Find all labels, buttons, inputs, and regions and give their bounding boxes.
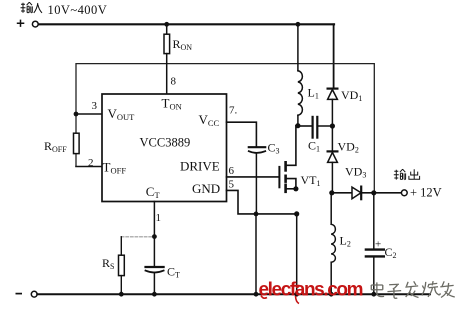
svg-text:2: 2 [88, 157, 94, 169]
wire source drop to rail [296, 214, 298, 294]
wire pin1 CT [153, 202, 155, 267]
svg-text:VT1: VT1 [301, 173, 321, 188]
svg-text:GND: GND [192, 181, 220, 196]
svg-text:5: 5 [229, 179, 235, 191]
resistor RON [166, 24, 168, 34]
watermark 电子发烧友 [371, 281, 454, 298]
capacitor C2 [373, 193, 375, 249]
wire pin7 VCC to C3 [227, 122, 257, 146]
svg-text:C3: C3 [268, 141, 280, 156]
svg-text:elecfans.com: elecfans.com [259, 279, 363, 300]
svg-text:10V~400V: 10V~400V [48, 3, 108, 17]
node junction top RON [164, 22, 169, 27]
node GND/source junction [294, 211, 299, 216]
svg-text:L1: L1 [308, 86, 319, 101]
svg-text:6: 6 [229, 165, 235, 177]
label input chinese 输入 [21, 2, 43, 13]
svg-text:C2: C2 [385, 245, 397, 260]
svg-text:VCC3889: VCC3889 [140, 136, 191, 150]
node rail C2 [371, 292, 376, 297]
inductor L2 [330, 193, 332, 224]
node C1/VD junction [330, 123, 335, 128]
svg-text:7.: 7. [229, 105, 238, 117]
output terminal [401, 190, 407, 196]
inductor L1 [297, 24, 299, 71]
node output junction [371, 190, 376, 195]
capacitor C3 [249, 146, 265, 148]
svg-text:VD1: VD1 [341, 88, 362, 103]
transistor VT1 MOSFET [278, 167, 280, 187]
node rail GND [254, 292, 259, 297]
node rail CT [152, 292, 157, 297]
svg-text:+ 12V: + 12V [410, 186, 442, 200]
svg-text:8: 8 [171, 76, 177, 88]
wire bottom ground rail [37, 293, 430, 295]
svg-text:RON: RON [173, 37, 193, 52]
wire pin3 [76, 113, 102, 115]
svg-text:VD3: VD3 [345, 165, 366, 180]
node junction top L1 [296, 22, 301, 27]
wire feedback top line [76, 64, 374, 193]
node source dot [293, 186, 298, 191]
node VD2/VD3/L2 junction [329, 190, 334, 195]
label minus [16, 293, 23, 295]
svg-text:VD2: VD2 [338, 140, 359, 155]
node L1/C1/drain junction [295, 123, 300, 128]
diode VD1 [328, 87, 338, 89]
label output chinese 输出 [394, 169, 420, 179]
node rail source [294, 292, 299, 297]
capacitor CT [146, 266, 164, 268]
label plus [17, 20, 25, 27]
svg-text:+: + [375, 239, 381, 251]
input terminal + [32, 21, 38, 27]
op-amp U1 VCC3889 box [102, 94, 227, 202]
svg-text:DRIVE: DRIVE [180, 159, 220, 174]
node rail L2 [329, 292, 334, 297]
svg-text:C1: C1 [308, 139, 320, 154]
svg-text:3: 3 [92, 100, 98, 112]
capacitor C1 [298, 125, 312, 127]
wire GND drop to rail [255, 214, 257, 294]
wire RS link (light) [121, 236, 151, 238]
wire input drop to VD1 [333, 24, 335, 88]
ground terminal - [31, 291, 37, 297]
wire pin6 DRIVE to gate [227, 176, 280, 178]
node pin1/RS junction [152, 234, 157, 239]
svg-text:1: 1 [156, 212, 162, 224]
svg-text:RS: RS [102, 256, 114, 271]
svg-text:ROFF: ROFF [44, 139, 67, 154]
resistor RS [120, 237, 122, 255]
node GND/C3 junction [254, 212, 259, 217]
wire pin5 GND [227, 190, 297, 214]
node pin3/ROFF junction [74, 112, 79, 117]
svg-text:CT: CT [167, 265, 180, 280]
wire top input rail [39, 23, 334, 25]
diode VD2 [331, 126, 333, 151]
resistor ROFF [74, 133, 80, 153]
watermark logo tails [261, 286, 300, 304]
wire pin2 [76, 166, 102, 168]
node rail RS [119, 292, 124, 297]
diode VD3 [332, 192, 352, 194]
svg-text:L2: L2 [340, 234, 351, 249]
